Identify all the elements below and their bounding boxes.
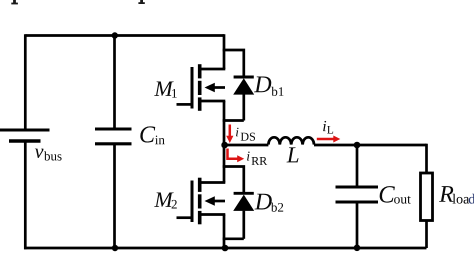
wire R_load top — [425, 144, 428, 173]
label R_load — [439, 186, 474, 204]
wire D_b2 top branch — [223, 167, 244, 194]
current arrow i_L — [317, 136, 341, 143]
wire C_out top branch — [356, 145, 359, 187]
wire bottom rail — [24, 247, 427, 250]
wire node to inductor — [224, 144, 268, 147]
capacitor C_in top plate — [95, 127, 132, 130]
label i_DS — [236, 128, 255, 141]
inductor L — [268, 137, 314, 144]
cropped caption glyph stem right — [138, 0, 144, 4]
node dot output bottom junction — [354, 245, 361, 252]
label C_in — [140, 126, 164, 144]
diode D_b2 — [233, 193, 254, 239]
wire D_b1 top branch — [223, 50, 244, 77]
wire inductor to output — [314, 144, 427, 147]
node dot top C_in junction — [112, 32, 118, 38]
label C_out — [380, 186, 411, 203]
wire left vertical lower — [24, 141, 27, 249]
node dot bottom C_in junction — [112, 245, 118, 251]
wire M2 source trunk — [223, 215, 226, 249]
node dot output top junction — [354, 142, 361, 149]
label i_RR — [247, 152, 267, 165]
wire M2 drain trunk — [223, 145, 226, 183]
battery v_bus top plate — [0, 129, 50, 132]
wire C_in top branch — [113, 36, 116, 130]
wire M1 source trunk — [223, 101, 226, 145]
wire C_out bottom branch — [356, 202, 359, 248]
wire D_b1 bottom branch — [223, 119, 244, 122]
current arrow i_DS — [226, 125, 233, 144]
label M1 — [154, 81, 177, 97]
diode D_b1 — [233, 77, 254, 121]
label L — [287, 147, 299, 162]
wire D_b2 bottom branch — [223, 237, 244, 240]
capacitor C_in bottom plate — [95, 142, 132, 145]
label M2 — [154, 192, 177, 208]
wire R_load bottom — [425, 221, 428, 249]
battery v_bus bottom plate — [9, 139, 41, 142]
capacitor C_out top plate — [336, 185, 379, 188]
node switch dot — [221, 142, 228, 149]
capacitor C_out bottom plate — [336, 200, 379, 203]
label i_L — [323, 121, 333, 134]
wire C_in bottom branch — [113, 144, 116, 248]
wire M1 drain trunk — [223, 34, 226, 69]
mosfet M2 — [177, 178, 226, 225]
resistor R_load — [421, 173, 433, 221]
node dot M2 rail junction — [222, 245, 229, 252]
mosfet M1 — [177, 64, 226, 111]
cropped caption glyph stem left — [11, 0, 18, 4]
label v_bus — [35, 149, 62, 161]
wire top rail — [25, 34, 224, 37]
label D_b1 — [254, 76, 283, 95]
current arrow i_RR — [228, 149, 245, 163]
wire left vertical upper — [24, 34, 27, 130]
label D_b2 — [255, 194, 284, 212]
